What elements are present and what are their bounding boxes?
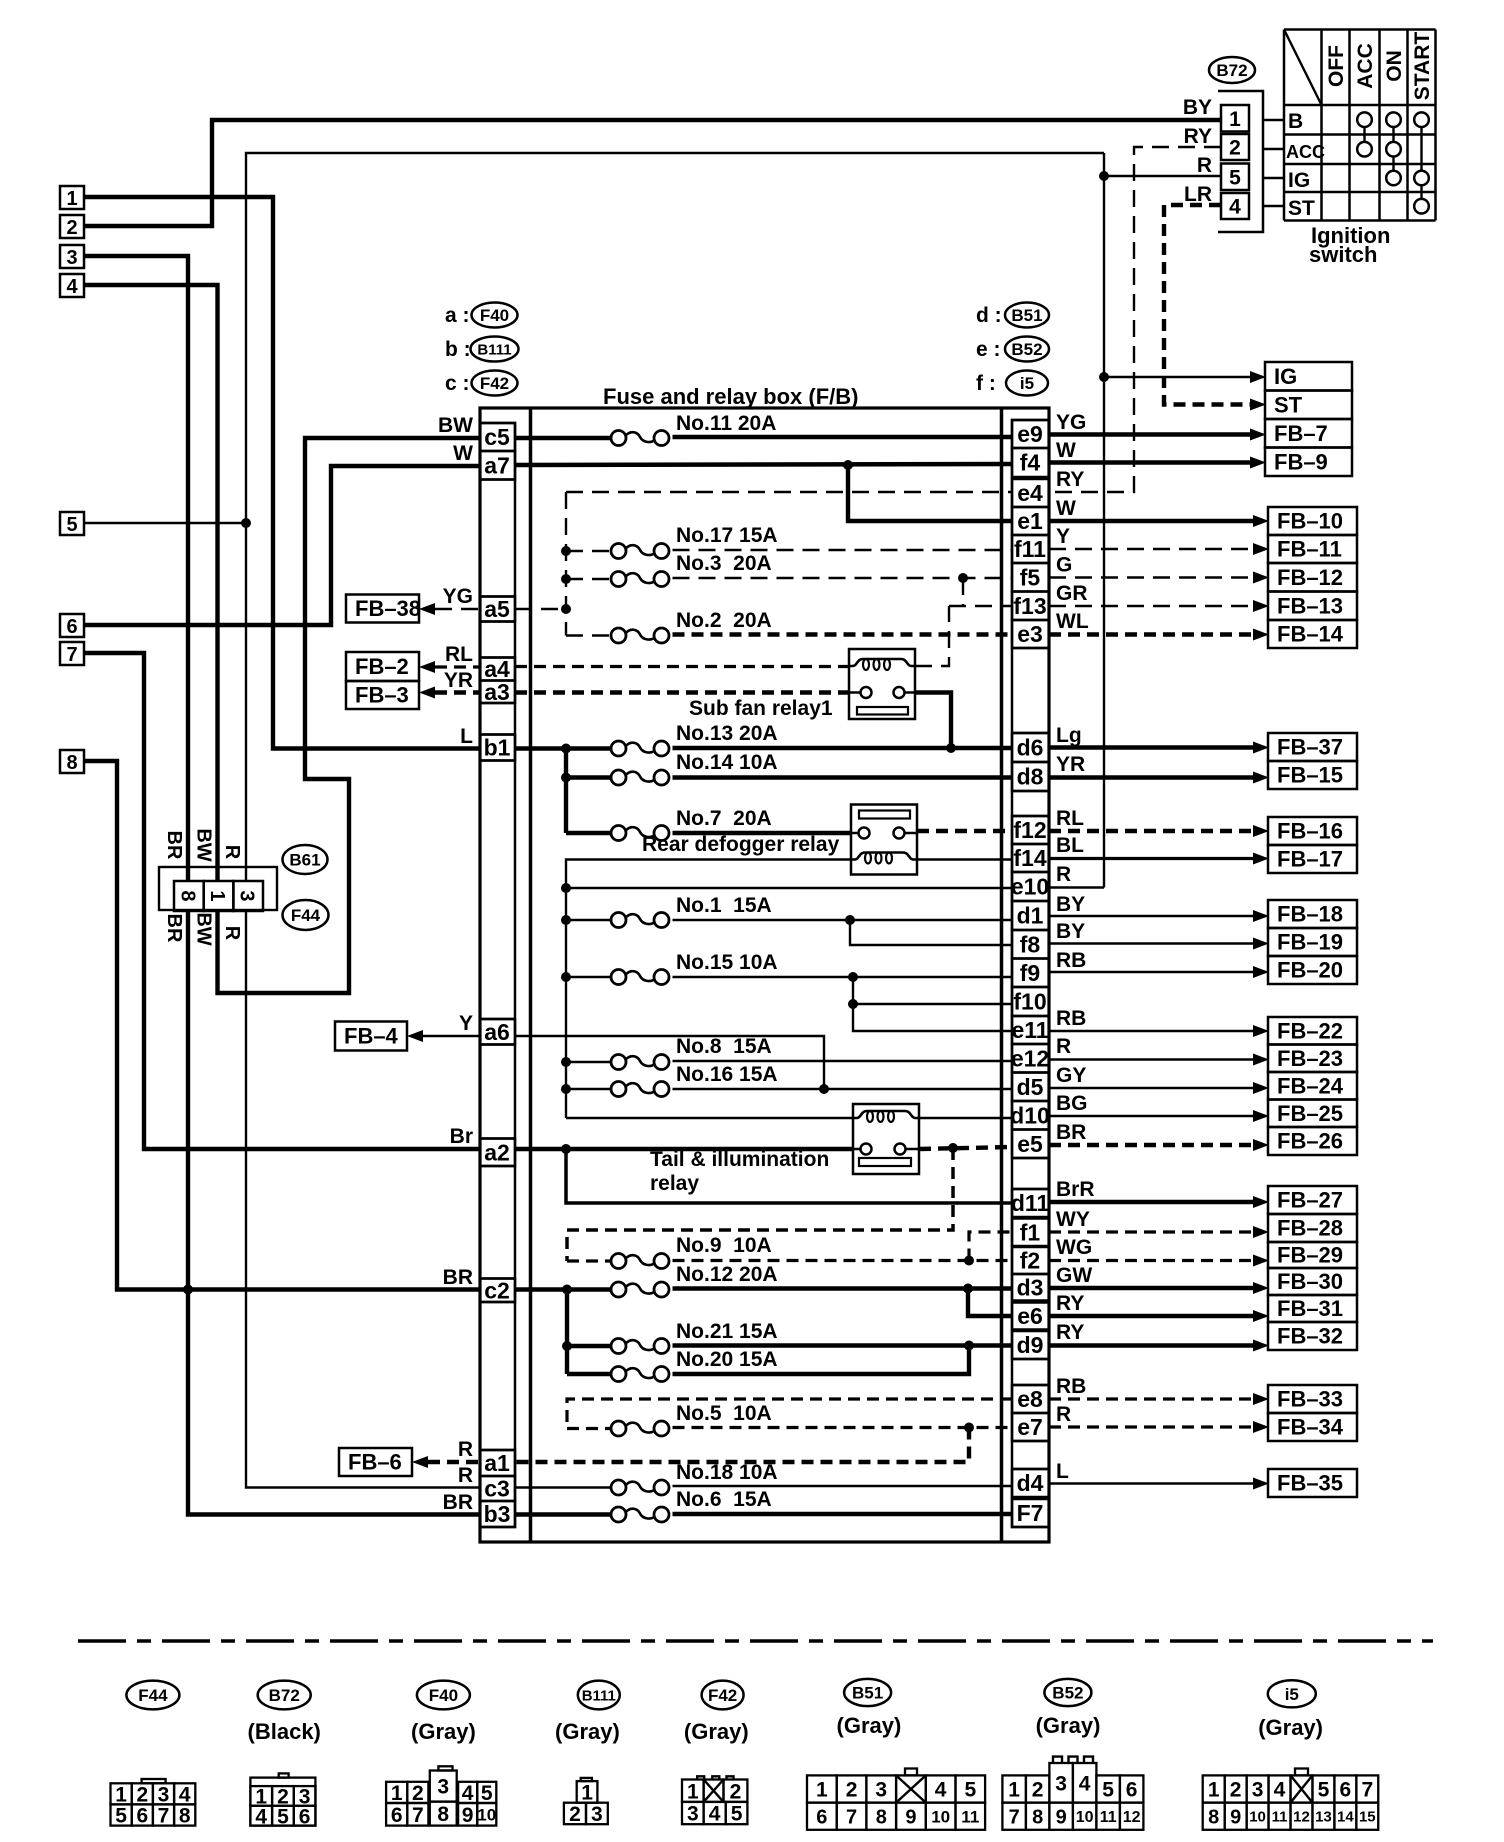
pin f8 cell (1012, 930, 1049, 959)
fuse No.9 10A (611, 1254, 626, 1269)
wire d1 to FB-18 (BY) (1049, 915, 1255, 917)
bottom connector B52 oval (1044, 1679, 1091, 1706)
wire from box 8 to pin c2 (BR) (84, 761, 480, 1290)
svg-text:12: 12 (1123, 1809, 1141, 1826)
svg-text:RL: RL (445, 643, 473, 666)
svg-text:15: 15 (1359, 1809, 1376, 1826)
svg-text:FB–14: FB–14 (1277, 622, 1344, 647)
connector box 4 (60, 274, 84, 297)
svg-text:6: 6 (1340, 1779, 1352, 1802)
svg-text:FB–28: FB–28 (1277, 1216, 1343, 1241)
svg-text:No.14 10A: No.14 10A (676, 751, 778, 774)
svg-text:10: 10 (931, 1807, 950, 1826)
svg-text:7: 7 (1009, 1806, 1020, 1828)
svg-text:FB–29: FB–29 (1277, 1243, 1343, 1268)
pin e1 cell (1012, 507, 1049, 535)
B72 pin 1 (1221, 105, 1249, 132)
svg-text:c :: c : (445, 372, 470, 395)
svg-text:FB–12: FB–12 (1277, 565, 1343, 590)
connector box 6 (60, 614, 84, 637)
junction of BR wires on c2 feed (183, 1285, 193, 1295)
svg-text:2: 2 (846, 1779, 858, 1802)
svg-text:RL: RL (1056, 807, 1084, 830)
wire f4 to FB-9 (W) (1049, 460, 1252, 464)
svg-text:11: 11 (1100, 1809, 1117, 1826)
svg-text:3: 3 (236, 890, 258, 901)
pin e8 cell (1012, 1385, 1049, 1413)
tail relay coil output to d10 (919, 1117, 1012, 1119)
wire fuse No.17 to f11 (566, 550, 613, 552)
svg-text:Rear defogger relay: Rear defogger relay (642, 833, 840, 856)
pin d11 cell (1012, 1189, 1049, 1217)
right pin column divider (1012, 1358, 1049, 1361)
junction a2 bus (561, 1144, 571, 1154)
svg-text:d8: d8 (1017, 764, 1044, 790)
tail relay contacts (861, 1144, 872, 1155)
bottom connector B72 oval (258, 1681, 311, 1710)
svg-text:FB–11: FB–11 (1277, 537, 1342, 562)
svg-text:11: 11 (961, 1807, 979, 1826)
wires d11 f1 f2 d3 e6 d9 to FB-27..FB-32 (1049, 1200, 1255, 1204)
fuse No.1 15A (611, 913, 626, 928)
svg-text:No.2 20A: No.2 20A (676, 609, 772, 632)
wire from box 1 to pin b1 (L) (84, 197, 480, 749)
pin c3 cell (480, 1476, 515, 1501)
fuse No.6 15A (611, 1507, 626, 1522)
svg-text:(Gray): (Gray) (837, 1713, 902, 1738)
B61/F44 pin 3 (233, 881, 263, 911)
sub fan relay1 contacts (861, 687, 872, 698)
branch wire No.3 to f13 (962, 578, 964, 606)
pin a1 cell (480, 1450, 515, 1476)
left pin column divider (480, 1043, 515, 1046)
bottom connector F40 pin grid (438, 1766, 452, 1770)
b1 bus vertical (564, 749, 568, 834)
svg-text:a5: a5 (484, 596, 510, 622)
sub fan relay1 box (849, 649, 915, 719)
svg-text:(Gray): (Gray) (411, 1719, 476, 1744)
B61/F44 pin 1 (204, 881, 234, 911)
fuse No.8 15A (611, 1055, 626, 1070)
svg-text:d1: d1 (1017, 903, 1044, 929)
wire fuse No.7 to rear defogger relay contact (566, 831, 613, 835)
svg-text:f8: f8 (1020, 931, 1041, 957)
wire fuse No.21 to d9 (567, 1344, 613, 1348)
svg-text:8: 8 (179, 1805, 191, 1828)
dashed wire e5 net to fuse No.9 (567, 1148, 953, 1261)
svg-text:5: 5 (115, 1805, 127, 1828)
svg-text:FB–30: FB–30 (1277, 1269, 1343, 1294)
pin f5 cell (1012, 563, 1049, 592)
svg-text:e1: e1 (1017, 508, 1043, 534)
pin a4 cell (480, 658, 515, 681)
connector F44 oval label (283, 900, 329, 930)
wire a4 to FB-2 (RL) (435, 665, 480, 668)
svg-text:BL: BL (1056, 834, 1084, 857)
right FB group IG/ST/FB-7/FB-9 (1265, 362, 1352, 391)
svg-text:3: 3 (437, 1776, 449, 1799)
svg-text:6: 6 (136, 1805, 148, 1828)
svg-text:7: 7 (1361, 1779, 1373, 1802)
svg-text:No.13 20A: No.13 20A (676, 722, 778, 745)
svg-text:R: R (458, 1464, 473, 1487)
pin e7 cell (1012, 1413, 1049, 1441)
c2 bus vertical (565, 1290, 569, 1375)
svg-text:BR: BR (1056, 1121, 1086, 1144)
wire fuse No.15 to f9 (566, 976, 613, 978)
junction e5 net (948, 1143, 958, 1153)
svg-text:3: 3 (591, 1803, 603, 1826)
branch wire to e1 (848, 465, 1012, 521)
pin a7 cell (480, 451, 515, 480)
svg-text:B52: B52 (1052, 1684, 1083, 1703)
wire fuse No.3 to f5 (566, 578, 613, 580)
pin f2 cell (1012, 1247, 1049, 1274)
svg-text:FB–23: FB–23 (1277, 1046, 1343, 1071)
right pin column divider (1012, 647, 1049, 650)
svg-text:d9: d9 (1017, 1332, 1044, 1358)
svg-text:FB–27: FB–27 (1277, 1188, 1343, 1213)
junction bus No.8 (561, 1057, 571, 1067)
wire a5 to FB-38 (YG) (435, 608, 480, 610)
branch No.9 to f1 (969, 1232, 1012, 1261)
svg-text:1: 1 (66, 188, 77, 210)
svg-text:3: 3 (687, 1803, 699, 1826)
fuse No.18 10A (611, 1480, 626, 1495)
bottom connector F42 oval (702, 1681, 744, 1710)
left FB box FB-38 (346, 595, 419, 623)
junction bus No.14 (561, 773, 571, 783)
svg-text:5: 5 (66, 514, 77, 536)
dashed rail e4 to accessory fuse bus (566, 491, 1012, 493)
pin e9 cell (1012, 420, 1049, 448)
wire c3 to d4 through fuse No.18 (515, 1486, 613, 1488)
svg-text:d5: d5 (1017, 1074, 1044, 1100)
svg-text:f2: f2 (1020, 1248, 1040, 1274)
svg-text:e9: e9 (1017, 421, 1043, 447)
svg-text:R: R (1056, 863, 1071, 886)
svg-text:ACC: ACC (1286, 142, 1325, 162)
fuse box left inner wall (529, 408, 533, 1542)
svg-text:e12: e12 (1011, 1045, 1049, 1071)
fuse box right inner wall (1000, 408, 1004, 1542)
pin e3 cell (1012, 620, 1049, 648)
junction of box 5 wire with R wire (241, 518, 251, 528)
fuse and relay box outline (480, 408, 1049, 1542)
svg-text:4: 4 (1274, 1779, 1286, 1802)
svg-text:B51: B51 (852, 1684, 883, 1703)
svg-text:BR: BR (163, 831, 185, 860)
rear defogger relay box (851, 805, 917, 875)
svg-text:B61: B61 (289, 851, 320, 870)
wire b1 to d6 through fuse No.13 (515, 746, 613, 750)
connector box 8 (60, 750, 84, 773)
svg-text:a3: a3 (484, 679, 510, 705)
svg-text:YR: YR (1056, 753, 1085, 776)
svg-text:FB–26: FB–26 (1277, 1129, 1343, 1154)
svg-text:1: 1 (1229, 108, 1241, 131)
svg-text:(Gray): (Gray) (684, 1719, 749, 1744)
svg-text:f12: f12 (1013, 817, 1046, 843)
wire RY from B72 pin 2 to pin e4 (1049, 147, 1221, 492)
svg-text:YR: YR (444, 669, 473, 692)
svg-text:5: 5 (481, 1782, 493, 1805)
svg-text:1: 1 (1008, 1779, 1020, 1802)
svg-text:e7: e7 (1017, 1414, 1043, 1440)
svg-text:FB–9: FB–9 (1274, 449, 1328, 474)
svg-text:Y: Y (459, 1012, 473, 1035)
wire fuse No.14 to d8 (566, 775, 613, 779)
svg-text:f10: f10 (1013, 989, 1046, 1015)
right pin column divider (1012, 1440, 1049, 1443)
svg-text:8: 8 (876, 1806, 887, 1828)
branch wire to e11 (853, 1004, 1012, 1031)
wire b3 to F7 through fuse No.6 (515, 1512, 613, 1516)
svg-text:6: 6 (299, 1805, 311, 1828)
right FB group FB-27..FB-32 (1268, 1186, 1357, 1214)
svg-text:9: 9 (1230, 1806, 1241, 1828)
svg-text:a1: a1 (484, 1450, 510, 1476)
junction R wire to B72 pin 5 (1099, 171, 1109, 181)
svg-text:No.18 10A: No.18 10A (676, 1461, 778, 1484)
svg-text:LR: LR (1184, 183, 1212, 206)
branch wire No.15 to f10 (853, 977, 1012, 1004)
tail relay bar (859, 1158, 911, 1166)
left FB box FB-4 (335, 1022, 407, 1051)
junction c2 bus (562, 1285, 572, 1295)
svg-text:Tail & illumination: Tail & illumination (650, 1148, 829, 1171)
stub wires B72 to ignition switch table (1263, 119, 1284, 121)
svg-text:ON: ON (1383, 50, 1406, 82)
wire from box 2 to ignition switch B72 pin 1 (BY) (84, 120, 1221, 226)
svg-text:ST: ST (1274, 392, 1303, 417)
bottom connector F44 oval (126, 1681, 179, 1710)
junction b1 bus (561, 744, 571, 754)
svg-text:No.9 10A: No.9 10A (676, 1234, 772, 1257)
svg-text:1: 1 (115, 1783, 127, 1806)
wire a7 to f4 (W) (515, 464, 1012, 465)
right FB group FB-22..FB-26 (1268, 1017, 1357, 1045)
pin a5 cell (480, 597, 515, 622)
junction bus No.17 (561, 546, 571, 556)
wire LR from B72 pin 4 to ST box (1164, 205, 1252, 405)
svg-text:d11: d11 (1011, 1190, 1050, 1216)
pin b3 cell (480, 1501, 515, 1527)
svg-text:RY: RY (1184, 125, 1212, 148)
pin e6 cell (1012, 1303, 1049, 1330)
left pin column divider (480, 1301, 515, 1304)
wire e7 to FB-34 (R) (1049, 1425, 1255, 1428)
svg-text:No.8 15A: No.8 15A (676, 1035, 772, 1058)
svg-text:Lg: Lg (1056, 724, 1082, 747)
pin f11 cell (1012, 535, 1049, 563)
bottom connector B52 pin grid (1053, 1757, 1062, 1763)
pin d8 cell (1012, 762, 1049, 791)
connector B72 oval label (1209, 57, 1255, 83)
pin f10 cell (1012, 987, 1049, 1016)
B72 pin 4 (1221, 193, 1249, 219)
svg-text:9: 9 (905, 1806, 916, 1828)
svg-text:FB–32: FB–32 (1277, 1324, 1343, 1349)
svg-text:8: 8 (66, 752, 77, 774)
accessory fuse bus vertical (565, 492, 567, 636)
svg-text:R: R (1197, 154, 1212, 177)
svg-text:9: 9 (1056, 1806, 1067, 1828)
svg-text:RB: RB (1056, 1007, 1086, 1030)
pin d4 cell (1012, 1469, 1049, 1497)
svg-text:RY: RY (1056, 1321, 1084, 1344)
svg-text:6: 6 (816, 1806, 827, 1828)
svg-text:GY: GY (1056, 1064, 1086, 1087)
junction No.12 output to e6 (963, 1284, 973, 1294)
R wire from top rail to B61 pin 3 (246, 153, 1104, 881)
wire a1 to FB-6 (R) (428, 1460, 480, 1464)
svg-text:10: 10 (1076, 1809, 1094, 1826)
svg-text:e10: e10 (1011, 874, 1049, 900)
svg-text:FB–16: FB–16 (1277, 819, 1343, 844)
svg-text:5: 5 (1318, 1779, 1330, 1802)
svg-text:No.11 20A: No.11 20A (676, 412, 776, 435)
wire f12 to FB-16 (RL) (1049, 829, 1255, 833)
svg-text:RB: RB (1056, 1375, 1086, 1398)
svg-text:2: 2 (730, 1780, 742, 1803)
pin F7 cell (1012, 1499, 1049, 1527)
svg-text:ST: ST (1288, 197, 1315, 220)
svg-text:FB–22: FB–22 (1277, 1018, 1343, 1043)
svg-text:5: 5 (277, 1805, 289, 1828)
svg-text:FB–13: FB–13 (1277, 593, 1343, 618)
wire from box 4 to B61 pin 1 (BW) (84, 285, 218, 881)
R wire vertical to e10 (1103, 153, 1105, 888)
svg-text:11: 11 (1272, 1809, 1288, 1826)
bottom connector B51 oval (844, 1679, 891, 1706)
rear defogger relay bar (859, 811, 910, 819)
svg-text:FB–35: FB–35 (1277, 1471, 1343, 1496)
wire a3 to sub fan relay contact (YR) (515, 690, 849, 694)
wire a3 to FB-3 (YR) (435, 690, 480, 694)
svg-text:f5: f5 (1020, 564, 1041, 590)
bottom connector i5 oval (1268, 1680, 1316, 1707)
svg-text:c5: c5 (484, 424, 510, 450)
svg-text:4: 4 (179, 1783, 191, 1806)
svg-text:B: B (1288, 110, 1303, 133)
svg-text:RY: RY (1056, 1292, 1084, 1315)
svg-text:B72: B72 (269, 1686, 300, 1705)
junction ignition bus e10 (561, 883, 571, 893)
svg-text:(Black): (Black) (248, 1719, 321, 1744)
svg-text:3: 3 (1055, 1772, 1067, 1795)
pin f12 cell (1012, 816, 1049, 844)
wire f8 to FB-19 (BY) (1049, 942, 1255, 944)
right pin column outline (1012, 420, 1049, 1527)
svg-text:R: R (1056, 1035, 1071, 1058)
svg-text:IG: IG (1274, 364, 1297, 389)
junction bus No.21 (562, 1341, 572, 1351)
ignition switch contacts (1357, 112, 1372, 127)
svg-text:R: R (458, 1438, 473, 1461)
svg-text:BY: BY (1056, 893, 1085, 916)
wire c2 to d3 through fuse No.12 (515, 1287, 613, 1291)
svg-text:switch: switch (1309, 242, 1377, 267)
wire R to B72 pin 5 (1104, 175, 1221, 177)
svg-text:f13: f13 (1013, 593, 1046, 619)
svg-text:FB–38: FB–38 (355, 596, 421, 621)
wire a6 to FB-4 (Y) (423, 1035, 480, 1037)
svg-text:ACC: ACC (1354, 43, 1377, 89)
svg-text:f14: f14 (1013, 845, 1046, 871)
svg-text:(Gray): (Gray) (1258, 1715, 1323, 1740)
svg-text:Sub fan relay1: Sub fan relay1 (689, 697, 833, 720)
svg-text:a6: a6 (484, 1019, 510, 1045)
wires e1 f11 f5 f13 e3 to FB-10..FB-14 (1049, 519, 1255, 523)
right FB group FB-16 FB-17 (1268, 817, 1357, 845)
svg-text:START: START (1411, 32, 1434, 101)
fuse No.11 20A (611, 431, 626, 446)
svg-text:L: L (1056, 1460, 1069, 1483)
svg-text:No.12 20A: No.12 20A (676, 1263, 778, 1286)
fuse No.3 20A (611, 572, 626, 587)
junction No.3 wire to f13 branch (958, 573, 968, 583)
svg-text:f :: f : (976, 372, 996, 395)
svg-text:FB–31: FB–31 (1277, 1296, 1343, 1321)
tail relay contact output to e5 (919, 1147, 1012, 1149)
fuse No.7 20A (611, 826, 626, 841)
junction bus No.15 (561, 972, 571, 982)
svg-text:BR: BR (443, 1266, 473, 1289)
svg-text:4: 4 (1229, 196, 1241, 219)
svg-text:7: 7 (158, 1805, 170, 1828)
wire a6 to No.16 output (Y) (515, 1036, 824, 1089)
svg-text:FB–18: FB–18 (1277, 902, 1343, 927)
pin c2 cell (480, 1279, 515, 1303)
svg-text:7: 7 (846, 1806, 857, 1828)
wires e11 e12 d5 d10 e5 to FB-22..FB-26 (1049, 1030, 1255, 1032)
svg-text:RY: RY (1056, 468, 1084, 491)
sub fan relay1 bar (857, 707, 908, 715)
svg-text:F44: F44 (138, 1686, 168, 1705)
pin d5 cell (1012, 1073, 1049, 1102)
svg-text:G: G (1056, 554, 1072, 577)
junction No.1 output to f8 (845, 915, 855, 925)
svg-text:2: 2 (136, 1783, 148, 1806)
svg-text:Y: Y (1056, 525, 1070, 548)
svg-text:L: L (460, 725, 473, 748)
left FB box FB-2 (346, 652, 419, 681)
connector box 7 (60, 642, 84, 665)
svg-text:No.3 20A: No.3 20A (676, 552, 772, 575)
svg-text:i5: i5 (1020, 374, 1034, 393)
wire bus to e10 (566, 887, 1012, 889)
svg-text:relay: relay (650, 1172, 699, 1195)
right pin column divider (1012, 790, 1049, 793)
svg-text:9: 9 (462, 1804, 474, 1827)
junction No.9 output to f1 (964, 1256, 974, 1266)
junction f10 branch to e11 (848, 999, 858, 1009)
svg-text:YG: YG (1056, 411, 1086, 434)
svg-text:FB–33: FB–33 (1277, 1387, 1343, 1412)
wire e8 to FB-33 (RB) (1049, 1397, 1255, 1400)
svg-text:GR: GR (1056, 582, 1088, 605)
svg-text:FB–19: FB–19 (1277, 930, 1343, 955)
svg-text:3: 3 (66, 247, 77, 269)
wire B61 pin 8 to b3 (BR) (188, 911, 480, 1515)
svg-text:7: 7 (412, 1804, 424, 1827)
bottom connector i5 pin grid (1295, 1769, 1308, 1776)
svg-text:OFF: OFF (1325, 45, 1348, 87)
pin f14 cell (1012, 844, 1049, 872)
left pin column divider (480, 1165, 515, 1168)
wire f14 to FB-17 (BL) (1049, 857, 1255, 860)
